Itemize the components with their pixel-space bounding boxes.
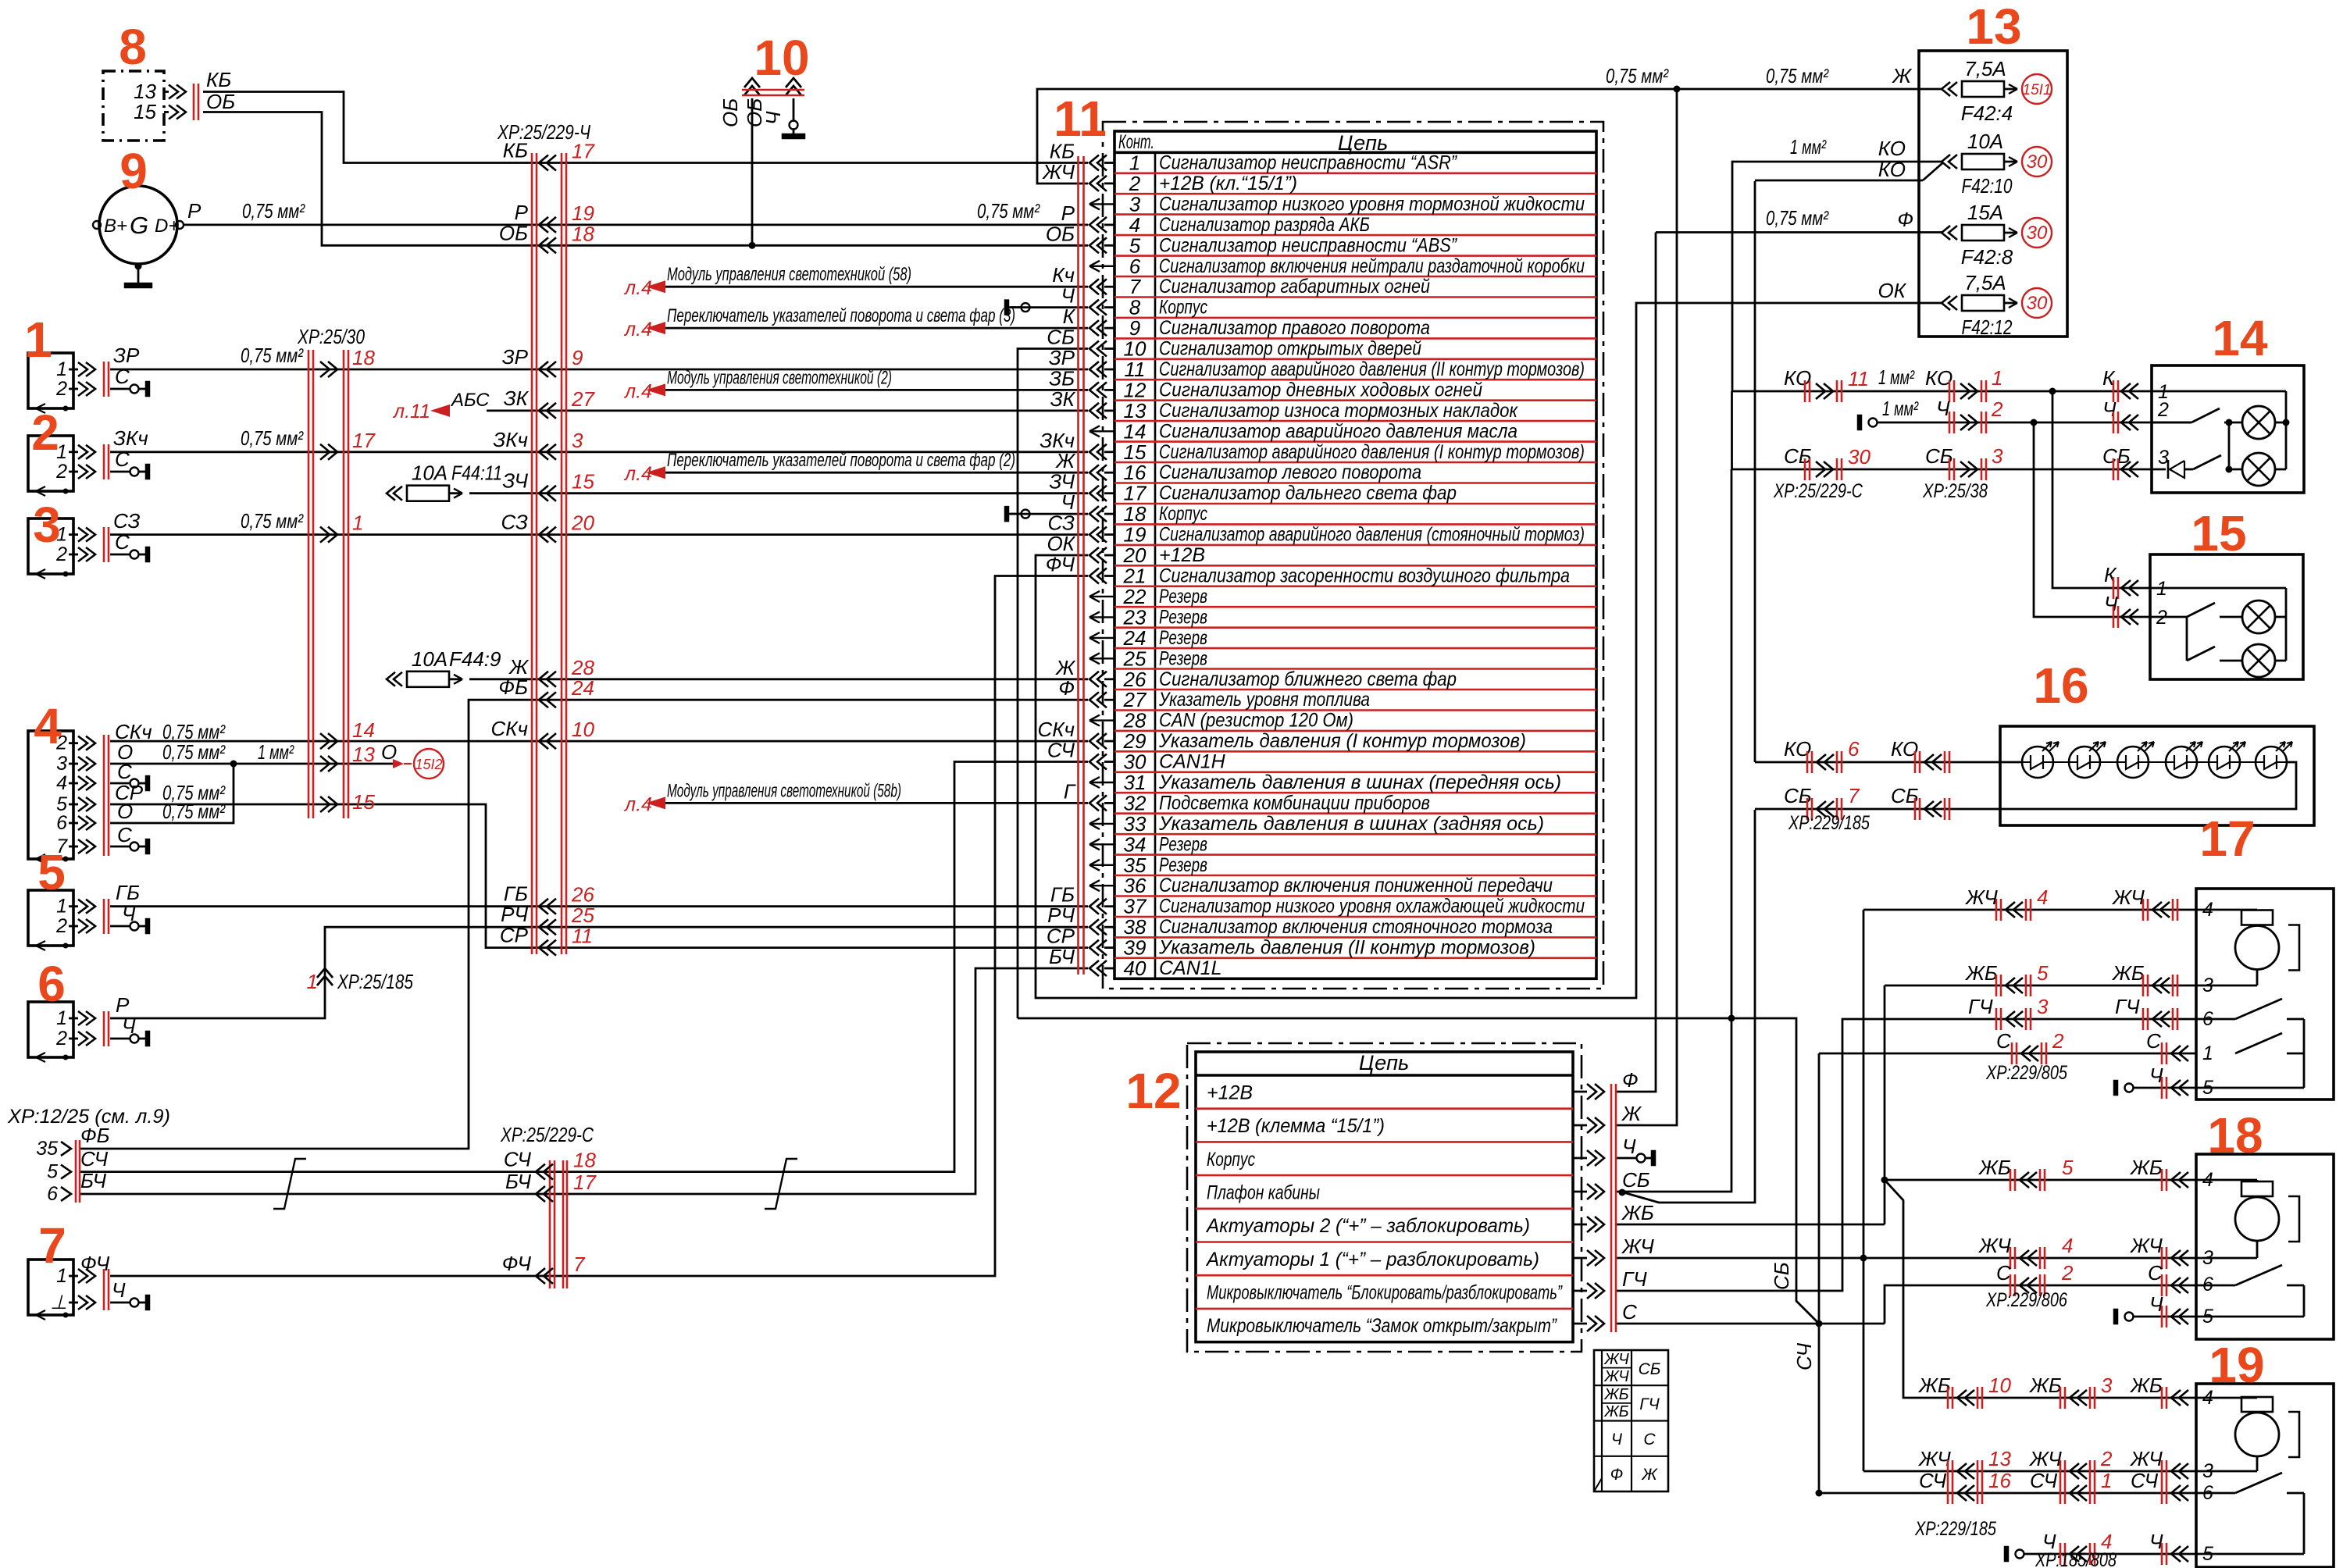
fuse F42:4 7,5А [1942, 82, 1950, 96]
svg-text:Резерв: Резерв [1159, 833, 1207, 855]
wire Ч comp 17 [2113, 1080, 2118, 1096]
svg-text:D+: D+ [155, 216, 179, 237]
table 12 [1196, 1052, 1573, 1342]
svg-text:B+: B+ [104, 216, 127, 237]
svg-text:5: 5 [2202, 1077, 2213, 1099]
svg-text:ЖБ: ЖБ [1964, 961, 1998, 985]
svg-text:Ф: Ф [1622, 1068, 1639, 1092]
generator G 9 [99, 186, 177, 264]
svg-text:СР: СР [500, 924, 529, 947]
svg-text:Актуаторы 1 (“+” – разблок: Актуаторы 1 (“+” – разблокировать) [1205, 1249, 1539, 1270]
svg-text:F44:9: F44:9 [449, 647, 501, 671]
svg-text:14: 14 [352, 718, 375, 742]
door control unit 12 dash-dot frame [1187, 1043, 1582, 1352]
svg-text:30: 30 [2027, 151, 2048, 173]
svg-text:2: 2 [55, 378, 67, 400]
svg-text:Сигнализатор левого поворота: Сигнализатор левого поворота [1159, 461, 1421, 483]
svg-text:БЧ: БЧ [505, 1170, 531, 1193]
svg-text:9: 9 [572, 346, 583, 369]
wire БЧ XP:12/25 to row 40 [80, 968, 1088, 1194]
wire О pins 3,6 of comp 4 [110, 763, 393, 765]
svg-text:2: 2 [1129, 172, 1141, 195]
svg-text:ГЧ: ГЧ [1622, 1267, 1647, 1291]
svg-text:л.4: л.4 [623, 277, 652, 299]
svg-text:Корпус: Корпус [1207, 1149, 1255, 1171]
svg-text:Сигнализатор засоренности во: Сигнализатор засоренности воздушного фил… [1159, 565, 1570, 587]
svg-text:ЗЧ: ЗЧ [502, 469, 528, 493]
LED 6 [2256, 747, 2287, 778]
svg-text:Г: Г [1064, 779, 1076, 803]
LED 3 [2117, 747, 2149, 778]
actuator 18 [2196, 1154, 2334, 1339]
table 11 connector bars [1077, 156, 1079, 975]
LED 5 [2209, 747, 2240, 778]
svg-text:4: 4 [56, 772, 67, 794]
svg-text:ЖЧ: ЖЧ [1917, 1447, 1951, 1470]
wire Ч comp 19 [2004, 1546, 2009, 1562]
svg-text:16: 16 [2033, 657, 2088, 714]
svg-text:л.11: л.11 [392, 401, 430, 422]
svg-text:18: 18 [1124, 502, 1147, 526]
svg-text:ЗБ: ЗБ [1049, 366, 1075, 390]
svg-text:ЖБ: ЖБ [2129, 1156, 2163, 1179]
svg-text:СЧ: СЧ [1919, 1469, 1947, 1492]
svg-text:ЖЧ: ЖЧ [1964, 886, 1998, 909]
svg-text:КО: КО [1784, 366, 1811, 390]
svg-text:Ж: Ж [1641, 1466, 1658, 1484]
connector box 1 [28, 353, 73, 408]
svg-text:7: 7 [1848, 784, 1860, 807]
svg-text:10: 10 [1988, 1374, 2011, 1397]
svg-text:CAN (резистор 120 Ом): CAN (резистор 120 Ом) [1159, 710, 1353, 732]
svg-text:ЖБ: ЖБ [1977, 1156, 2011, 1179]
svg-text:3: 3 [2202, 1247, 2213, 1269]
svg-text:ЗР: ЗР [113, 344, 140, 367]
svg-text:8: 8 [1129, 296, 1141, 319]
svg-text:3: 3 [2202, 1460, 2213, 1482]
wire Ч ground row 8 [1011, 306, 1088, 308]
svg-text:36: 36 [1124, 874, 1147, 897]
table 11 row arrows [1089, 155, 1099, 171]
svg-text:Указатель уровня топлива: Указатель уровня топлива [1158, 689, 1370, 711]
wire ОК row 20 around table to fuse F42:12 [1036, 303, 1942, 998]
svg-text:ЖЧ: ЖЧ [1603, 1351, 1629, 1368]
svg-text:л.4: л.4 [623, 319, 652, 340]
svg-text:1: 1 [2101, 1469, 2112, 1492]
mini color table [1594, 1350, 1668, 1491]
svg-text:6: 6 [1848, 737, 1860, 761]
svg-text:Указатель давления в шинах: Указатель давления в шинах (передняя ось… [1158, 772, 1561, 793]
svg-text:F44:11: F44:11 [451, 461, 502, 485]
svg-text:Сигнализатор износа тормозны: Сигнализатор износа тормозных накладок [1159, 400, 1518, 422]
svg-text:ХР:25/30: ХР:25/30 [297, 325, 365, 348]
actuator 17 [2196, 889, 2334, 1099]
svg-text:1: 1 [2202, 1042, 2213, 1064]
svg-text:0,75 мм²: 0,75 мм² [241, 344, 304, 367]
svg-text:35: 35 [36, 1138, 58, 1160]
svg-text:7: 7 [38, 1217, 66, 1274]
svg-text:С: С [1643, 1431, 1656, 1449]
svg-text:СЧ: СЧ [2030, 1469, 2058, 1492]
svg-text:7: 7 [573, 1253, 586, 1276]
svg-text:9: 9 [119, 143, 148, 199]
actuator 19 [2196, 1384, 2334, 1567]
wire break marks [273, 1159, 306, 1209]
net СБ horizontal from row 10 [1018, 1018, 1819, 1324]
svg-text:G: G [130, 212, 148, 239]
wire ОБ from 8 to table row 5 [203, 112, 1088, 246]
svg-text:6: 6 [56, 812, 67, 834]
svg-text:ЖБ: ЖБ [2111, 961, 2145, 985]
svg-text:6: 6 [47, 1183, 58, 1205]
svg-text:1 мм²: 1 мм² [258, 740, 294, 764]
svg-text:АБС: АБС [450, 390, 490, 411]
wire ЗР [110, 369, 1088, 371]
svg-text:Сигнализатор включения стоян: Сигнализатор включения стояночного тормо… [1159, 916, 1553, 938]
svg-text:0,75 мм²: 0,75 мм² [162, 800, 226, 823]
svg-text:6: 6 [2202, 1482, 2213, 1504]
svg-text:ФЧ: ФЧ [1046, 553, 1075, 576]
svg-text:СБ: СБ [1770, 1262, 1793, 1290]
svg-text:С: С [1622, 1300, 1637, 1324]
svg-text:4: 4 [2202, 899, 2213, 921]
diode 14 [2167, 460, 2170, 479]
svg-text:Ч: Ч [761, 111, 785, 125]
svg-text:ЗКч: ЗКч [493, 428, 528, 451]
svg-text:CAN1H: CAN1H [1159, 751, 1226, 773]
svg-text:Модуль управления светотехни: Модуль управления светотехникой (58) [667, 264, 911, 285]
svg-text:л.4: л.4 [623, 380, 652, 402]
svg-text:15I2: 15I2 [415, 757, 442, 772]
connector box 3 [28, 519, 73, 574]
svg-text:ГЧ: ГЧ [1968, 995, 1993, 1018]
svg-text:Сигнализатор низкого уровня: Сигнализатор низкого уровня охлаждающей … [1159, 896, 1585, 918]
svg-text:0,75 мм²: 0,75 мм² [1766, 206, 1829, 230]
net СБ riser comp14/table12 [1617, 469, 1731, 1192]
svg-text:ОБ: ОБ [499, 221, 528, 244]
svg-text:25: 25 [1123, 647, 1147, 670]
LED 2 [2069, 747, 2100, 778]
net ЖЧ riser [1863, 910, 1865, 1471]
svg-text:Сигнализатор неисправности “: Сигнализатор неисправности “ABS” [1159, 234, 1457, 256]
svg-text:16: 16 [1988, 1469, 2011, 1492]
svg-text:Актуаторы 2 (“+” – заблоки: Актуаторы 2 (“+” – заблокировать) [1205, 1215, 1530, 1237]
svg-text:20: 20 [571, 511, 594, 535]
svg-text:40: 40 [1124, 957, 1147, 980]
svg-text:л.4: л.4 [623, 463, 652, 485]
svg-text:ОБ: ОБ [206, 90, 235, 113]
pin2 ground wires [110, 388, 130, 390]
connector box 7 [28, 1260, 73, 1315]
svg-text:ЖБ: ЖБ [2129, 1374, 2163, 1397]
svg-text:15I1: 15I1 [2023, 82, 2052, 98]
wire КО into comp 14 [1732, 390, 2152, 393]
svg-text:13: 13 [1966, 0, 2021, 55]
svg-text:ФБ: ФБ [80, 1124, 110, 1147]
wire ГБ [110, 905, 1088, 907]
svg-text:ХР:229/185: ХР:229/185 [1788, 812, 1870, 834]
svg-text:27: 27 [571, 387, 595, 411]
svg-text:ЖЧ: ЖЧ [1603, 1368, 1629, 1385]
wire СБ row 10 riser [1018, 349, 1088, 1019]
svg-text:15: 15 [2191, 505, 2246, 561]
svg-text:18: 18 [2207, 1107, 2263, 1164]
svg-text:С: С [1996, 1029, 2011, 1053]
svg-text:БЧ: БЧ [80, 1169, 106, 1192]
lamp unit 15 [2150, 554, 2303, 679]
connector box 5 [28, 890, 73, 946]
svg-text:5: 5 [37, 844, 66, 900]
svg-text:ОК: ОК [1878, 279, 1906, 302]
label frame box4 [109, 757, 111, 847]
svg-text:Ч: Ч [1611, 1431, 1623, 1449]
svg-text:15: 15 [134, 100, 156, 123]
svg-text:СКч: СКч [490, 717, 528, 740]
svg-text:3: 3 [56, 753, 67, 775]
svg-text:Сигнализатор ближнего света: Сигнализатор ближнего света фар [1159, 668, 1457, 690]
svg-text:10: 10 [754, 30, 809, 86]
svg-text:ЖБ: ЖБ [1621, 1201, 1654, 1224]
svg-text:С: С [2148, 1261, 2163, 1285]
svg-text:F42:8: F42:8 [1961, 245, 2013, 269]
svg-text:22: 22 [1123, 585, 1147, 608]
svg-text:КБ: КБ [206, 68, 231, 91]
svg-text:17: 17 [572, 140, 595, 163]
svg-text:Конт.: Конт. [1118, 131, 1154, 153]
svg-text:0,75 мм²: 0,75 мм² [162, 740, 226, 764]
switch 18 [2196, 1285, 2235, 1287]
svg-text:Сигнализатор низкого уровня: Сигнализатор низкого уровня тормозной жи… [1159, 193, 1585, 215]
svg-text:Ч: Ч [1622, 1135, 1636, 1158]
wire К to comp 15 [2052, 391, 2150, 588]
svg-text:13: 13 [1988, 1447, 2011, 1470]
wire ЗЧ from fuse F44:11 [469, 492, 1088, 494]
wire КБ from 8 to table row 1 [203, 92, 1088, 163]
wire Р generator to table row 4 [184, 223, 1088, 226]
wire АБС/ЗК [487, 410, 1088, 412]
net ГЧ riser [1617, 1019, 2196, 1291]
svg-text:СЧ: СЧ [504, 1148, 532, 1171]
svg-text:С: С [117, 823, 132, 846]
svg-text:Сигнализатор аварийного давл: Сигнализатор аварийного давления масла [1159, 420, 1517, 442]
svg-text:Переключатель указателей пов: Переключатель указателей поворота и свет… [667, 305, 1015, 326]
svg-text:+12В (клемма “15/1”): +12В (клемма “15/1”) [1207, 1115, 1385, 1137]
svg-text:13: 13 [352, 743, 375, 766]
svg-text:ЖЧ: ЖЧ [2028, 1447, 2062, 1470]
svg-text:0,75 мм²: 0,75 мм² [241, 426, 304, 450]
svg-text:8: 8 [119, 19, 147, 75]
svg-text:Сигнализатор включения пониж: Сигнализатор включения пониженной переда… [1159, 875, 1553, 896]
svg-text:ЖЧ: ЖЧ [1621, 1235, 1654, 1258]
svg-text:ХР:25/229-С: ХР:25/229-С [500, 1123, 594, 1146]
svg-text:11: 11 [572, 925, 593, 948]
net КО fuse F42:10 wires [1732, 162, 1942, 391]
svg-text:Сигнализатор дальнего света: Сигнализатор дальнего света фар [1159, 483, 1457, 504]
svg-text:ЗКч: ЗКч [113, 426, 148, 450]
svg-text:16: 16 [1124, 461, 1147, 484]
wire ЖЧ row 2 to top Ж line [1037, 89, 1942, 184]
svg-text:F42:4: F42:4 [1961, 102, 2013, 125]
wire ФБ/Ф [80, 700, 1088, 1149]
svg-text:Резерв: Резерв [1159, 606, 1207, 628]
svg-text:Сигнализатор аварийного давл: Сигнализатор аварийного давления (стояно… [1159, 524, 1585, 546]
svg-text:1: 1 [24, 312, 52, 368]
svg-text:БЧ: БЧ [1049, 945, 1075, 968]
svg-text:5: 5 [47, 1161, 58, 1183]
svg-text:10: 10 [1124, 337, 1147, 361]
svg-text:24: 24 [571, 676, 594, 700]
svg-text:Микровыключатель “Замок откр: Микровыключатель “Замок открыт/закрыт” [1207, 1315, 1557, 1337]
svg-text:Резерв: Резерв [1159, 627, 1207, 649]
svg-text:Цепь: Цепь [1359, 1051, 1409, 1074]
svg-text:Ч: Ч [1936, 397, 1950, 420]
svg-text:ХР:229/806: ХР:229/806 [1985, 1289, 2067, 1311]
svg-text:30: 30 [1124, 750, 1147, 774]
svg-text:6: 6 [37, 956, 66, 1012]
svg-text:ЖЧ: ЖЧ [1977, 1234, 2011, 1257]
svg-text:11: 11 [1848, 367, 1869, 390]
svg-text:Сигнализатор габаритных огне: Сигнализатор габаритных огней [1159, 276, 1430, 298]
svg-text:0,75 мм²: 0,75 мм² [1606, 64, 1669, 87]
svg-text:6: 6 [2202, 1008, 2213, 1030]
motor 18 [2196, 1179, 2257, 1181]
svg-text:ЖБ: ЖБ [2028, 1374, 2062, 1397]
svg-text:Корпус: Корпус [1159, 297, 1207, 319]
connector bars 8 [193, 84, 195, 120]
svg-text:Указатель давления в шинах: Указатель давления в шинах (задняя ось) [1158, 813, 1544, 835]
svg-text:4: 4 [2062, 1234, 2073, 1257]
svg-text:КО: КО [1878, 137, 1906, 160]
svg-text:л.4: л.4 [623, 793, 652, 815]
svg-text:37: 37 [1124, 895, 1147, 918]
svg-text:+12В (кл.“15/1”): +12В (кл.“15/1”) [1159, 173, 1297, 194]
svg-text:⊥: ⊥ [50, 1292, 67, 1313]
svg-text:Сигнализатор неисправности “: Сигнализатор неисправности “ASR” [1159, 152, 1457, 174]
svg-text:2: 2 [55, 915, 67, 937]
fuse F44:9 [387, 672, 395, 686]
svg-text:34: 34 [1124, 832, 1147, 856]
svg-text:1: 1 [1992, 366, 2002, 390]
svg-text:СБ: СБ [1622, 1168, 1650, 1192]
svg-text:ОК: ОК [1047, 532, 1075, 555]
svg-text:3: 3 [33, 497, 61, 553]
table 11 [1114, 131, 1596, 978]
svg-text:Ч: Ч [2104, 592, 2118, 615]
fuse box 13 [1919, 51, 2067, 337]
svg-text:23: 23 [1123, 605, 1147, 629]
svg-text:ГБ: ГБ [116, 881, 140, 904]
svg-text:2: 2 [2061, 1261, 2074, 1285]
net Ч table12 ground [1617, 1157, 1636, 1160]
svg-text:СБ: СБ [1047, 326, 1075, 349]
svg-text:18: 18 [572, 222, 594, 245]
motor 19 [2196, 1397, 2257, 1399]
svg-text:Ч: Ч [122, 1014, 136, 1038]
net Ж riser from table 12 [1617, 89, 1677, 1125]
svg-text:Указатель давления (I конту: Указатель давления (I контур тормозов) [1158, 730, 1526, 752]
net С riser [1617, 1323, 1885, 1325]
svg-text:К: К [2104, 563, 2117, 586]
svg-text:Ч: Ч [1061, 284, 1075, 308]
svg-text:6: 6 [2202, 1274, 2213, 1295]
svg-text:ЖЧ: ЖЧ [2129, 1447, 2163, 1470]
svg-text:Плафон кабины: Плафон кабины [1207, 1182, 1320, 1204]
svg-text:СЧ: СЧ [2131, 1469, 2159, 1492]
svg-text:СЗ: СЗ [113, 509, 140, 533]
svg-text:О: О [117, 800, 133, 823]
svg-text:Сигнализатор дневных ходовых: Сигнализатор дневных ходовых огней [1159, 379, 1482, 401]
svg-text:1 мм²: 1 мм² [1878, 365, 1915, 389]
svg-text:ЖБ: ЖБ [1917, 1374, 1951, 1397]
svg-text:5: 5 [2202, 1543, 2213, 1565]
wire СКч [110, 740, 1088, 743]
svg-text:15: 15 [352, 790, 375, 814]
svg-text:7,5А: 7,5А [1964, 57, 2006, 80]
svg-text:СЧ: СЧ [1047, 739, 1075, 762]
wire ЗКч [110, 451, 1088, 453]
svg-text:4: 4 [34, 698, 62, 754]
wire К row 9 [663, 327, 1088, 330]
svg-text:ХР:25/185: ХР:25/185 [337, 970, 413, 993]
fuse F44:11 [387, 486, 395, 501]
wire СБ comp16 [1755, 808, 2000, 811]
svg-text:2: 2 [55, 461, 67, 483]
fuse F42:10 10А [1942, 155, 1950, 169]
svg-text:С: С [115, 365, 130, 388]
wire СЗ [110, 533, 1088, 536]
svg-text:+12В: +12В [1207, 1082, 1253, 1103]
connector XP:25/185 on РЧ wire [317, 968, 333, 978]
svg-text:14: 14 [1124, 419, 1147, 443]
svg-text:КБ: КБ [503, 139, 528, 162]
svg-text:ФЧ: ФЧ [80, 1252, 110, 1275]
svg-text:12: 12 [1124, 378, 1147, 401]
svg-text:Ч: Ч [1061, 490, 1075, 514]
svg-text:0,75 мм²: 0,75 мм² [1766, 64, 1829, 87]
svg-text:1: 1 [307, 970, 318, 993]
svg-text:2: 2 [2157, 399, 2169, 421]
wire Ч to comp 15 [2034, 422, 2150, 617]
svg-text:ОБ: ОБ [1046, 222, 1075, 245]
svg-text:2: 2 [31, 404, 59, 461]
svg-text:Переключатель указателей пов: Переключатель указателей поворота и свет… [667, 450, 1015, 471]
svg-text:F42:10: F42:10 [1962, 174, 2013, 198]
svg-text:Корпус: Корпус [1159, 503, 1207, 525]
connector box 8 [103, 71, 164, 141]
svg-text:Модуль управления светотехни: Модуль управления светотехникой (2) [667, 367, 892, 388]
svg-text:С: С [117, 760, 132, 783]
svg-text:ЖБ: ЖБ [1603, 1386, 1628, 1403]
svg-text:СЧ: СЧ [80, 1147, 109, 1171]
svg-text:С: С [115, 447, 130, 471]
wire Ж from fuse F44:9 [469, 678, 1088, 680]
svg-text:СЧ: СЧ [1792, 1342, 1816, 1370]
svg-text:+12В: +12В [1159, 544, 1205, 566]
svg-text:ЖБ: ЖБ [1603, 1403, 1628, 1420]
svg-text:ЖЧ: ЖЧ [2129, 1234, 2163, 1257]
svg-text:ГЧ: ГЧ [2115, 995, 2140, 1018]
LED 4 [2166, 747, 2197, 778]
svg-text:ЗР: ЗР [502, 345, 529, 369]
svg-text:Сигнализатор аварийного давл: Сигнализатор аварийного давления (II кон… [1159, 358, 1585, 380]
svg-text:КО: КО [1878, 158, 1906, 181]
net СБ branch to comp 16 [1619, 1189, 1626, 1196]
wire Ч ground row 18 [1011, 513, 1088, 515]
motor 17 [2196, 909, 2257, 911]
svg-text:Цепь: Цепь [1338, 131, 1388, 155]
connector box 4 [28, 731, 73, 859]
svg-text:10А: 10А [412, 461, 448, 485]
